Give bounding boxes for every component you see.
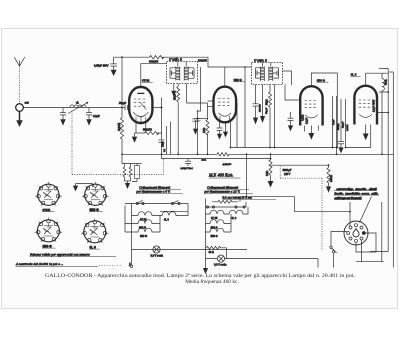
label S2: [89, 208, 103, 212]
pin SP5: [347, 232, 350, 235]
wire IF1 sec to V2 grid: [187, 103, 208, 119]
lamp LP1: [153, 246, 160, 253]
wire V3 cathode: [310, 126, 312, 134]
svg-text:per funzionamento a 6 V.: per funzionamento a 6 V.: [136, 190, 171, 194]
svg-text:1ª MED. F.: 1ª MED. F.: [169, 58, 183, 62]
wire S2 shield ground: [76, 184, 93, 188]
svg-text:6B6 G: 6B6 G: [211, 235, 218, 238]
ground (C9): [193, 129, 198, 135]
wire V1 cathode drops: [135, 122, 146, 136]
capacitor C10: [253, 104, 259, 118]
capacitor C7 (osc pad): [195, 119, 201, 121]
wire main bus B+ (y=156.5): [122, 153, 393, 155]
node junctions: [121, 147, 383, 167]
svg-text:500kΩ: 500kΩ: [338, 123, 340, 130]
node SP feed join: [349, 211, 351, 213]
svg-text:Schema valido per apparecchi c: Schema valido per apparecchi con numero: [30, 253, 90, 257]
resistor R8 (volume pot): [327, 165, 330, 186]
wire 6V left rail b: [131, 204, 133, 266]
capacitor T2 trimmer right: [273, 68, 279, 78]
wire AVC riser (x=122): [121, 57, 123, 107]
svg-text:altoparlanti: altoparlanti: [335, 196, 362, 200]
svg-text:M.F.460: M.F.460: [259, 103, 261, 112]
capacitor T1 trimmer right: [188, 68, 194, 79]
capacitor C11 (det bypass): [288, 112, 294, 125]
wire oscillator coil feed: [198, 67, 201, 111]
wire 12V lamp line: [206, 258, 319, 260]
ground (C11): [288, 125, 293, 131]
svg-text:5000 pF: 5000 pF: [283, 169, 292, 172]
IF transformer T1 (1st MED.F): [167, 62, 198, 84]
capacitor C4 (cathode): [159, 98, 165, 159]
svg-text:20kΩ: 20kΩ: [174, 94, 177, 100]
tube V2 (6B8G IF amp): [214, 87, 237, 123]
capacitor C13 (tone, dashed box): [280, 166, 292, 178]
wire AVC column a: [332, 96, 334, 148]
wire AVC column b: [336, 96, 338, 154]
svg-text:6L 6: 6L 6: [164, 219, 169, 222]
wire bus 2 (y=146): [231, 147, 338, 149]
wire IF1 screen feed: [176, 57, 178, 62]
wire V3 plate loop: [311, 73, 337, 148]
wire T2 to V3 grid: [285, 85, 300, 101]
filament F4 (12V row1): [206, 207, 249, 214]
wire T1 secondary down: [186, 84, 188, 104]
svg-text:Mod.: Mod.: [201, 158, 207, 161]
antenna A1: [14, 57, 25, 66]
capacitor T1 trimmer left: [170, 68, 176, 79]
capacitor T2 trimmer left: [255, 68, 260, 78]
switch SW1: [330, 232, 347, 268]
ground (V2 cathode): [223, 132, 228, 138]
svg-text:0,1µF 400V: 0,1µF 400V: [372, 99, 375, 112]
socket SP (speaker plug): [344, 221, 368, 245]
ground (R7): [268, 181, 274, 188]
resistor R10 (48 ohm): [206, 246, 227, 258]
filament F2 (6V row2): [125, 216, 160, 224]
wire top rail (B+): [114, 56, 150, 58]
note line 2 (handwritten): [15, 262, 131, 267]
ground (C10): [253, 118, 258, 125]
resistor R5 (diode load, vertical): [269, 85, 272, 148]
svg-text:6,3 V scala: 6,3 V scala: [214, 264, 227, 267]
capacitor C5 (B+ bypass): [110, 57, 117, 70]
svg-text:1MΩ: 1MΩ: [203, 128, 206, 133]
label filament 6V title: [136, 185, 184, 193]
inductor L1 (tuned, variable): [68, 102, 89, 114]
wire V4 cathode: [365, 125, 367, 134]
socket S4 (bottom view): [81, 218, 109, 243]
svg-text:B.F. avv. batteria 12 V. an: B.F. avv. batteria 12 V. ant.: [223, 197, 253, 200]
svg-text:125 V: 125 V: [284, 173, 291, 176]
ground (R8): [326, 186, 331, 192]
wire V3 pin stubs: [305, 126, 319, 132]
resistor R1 (AVC, vertical): [120, 108, 123, 155]
node IF2 feed: [244, 66, 246, 68]
wire V1 grid exit: [152, 107, 161, 109]
wire V2 plate up: [224, 67, 226, 87]
wire SP diagonal: [360, 197, 372, 223]
label M.F. 460: [208, 173, 241, 178]
svg-text:6B6 G: 6B6 G: [43, 244, 53, 248]
wire filament feed from bus: [246, 154, 248, 196]
inductor T1 primary: [176, 67, 180, 81]
wire rail drop to IF2 feed: [208, 57, 252, 67]
label S3: [42, 244, 56, 248]
ground (antenna return): [16, 111, 23, 127]
wire output right vertical a: [370, 69, 388, 252]
resistor R7 (AF load vertical): [269, 154, 272, 181]
capacitor C1: [60, 108, 66, 120]
ground (T1 left): [171, 91, 176, 97]
svg-text:0,1µF: 0,1µF: [333, 119, 335, 125]
svg-text:6TH8: 6TH8: [142, 79, 150, 83]
svg-text:ant: ant: [25, 101, 29, 105]
socket S3 (bottom view): [35, 217, 63, 242]
note line 1 (handwritten): [30, 253, 116, 257]
svg-text:bob. mobile ecc. alt.: bob. mobile ecc. alt.: [335, 191, 379, 195]
wire 12V terminal line: [206, 202, 247, 207]
pin SP6: [349, 237, 352, 240]
label speaker note row3: [334, 196, 362, 200]
wire IF2 feed branch: [244, 67, 246, 148]
wire output right vertical b: [389, 72, 393, 268]
wire SP right pin loop: [356, 233, 376, 252]
switch 6V a: [136, 200, 144, 204]
wire V4 plate rail: [366, 73, 389, 86]
node osc tie: [197, 110, 199, 112]
wire gang link (dashed): [72, 111, 164, 175]
svg-text:all.: all.: [76, 103, 79, 105]
wire V2 screen to bus2: [230, 121, 232, 147]
pin SP8: [360, 237, 363, 240]
ground (C8): [217, 134, 222, 140]
svg-text:6TH8: 6TH8: [43, 208, 51, 212]
socket SP key: [353, 229, 359, 237]
label det column: [259, 103, 268, 114]
svg-text:25µF: 25µF: [162, 141, 165, 147]
svg-text:A matricola dal 20.801 in poi: A matricola dal 20.801 in poi e ...: [15, 262, 63, 266]
svg-text:300Ω/½: 300Ω/½: [198, 59, 208, 63]
svg-text:50µµF: 50µµF: [119, 102, 127, 105]
potentiometer cluster under bus left: [122, 154, 142, 183]
capacitor C12: [338, 99, 344, 147]
ground (grid leak): [132, 137, 137, 143]
wire oscillator branch: [197, 111, 199, 154]
lamp LP2: [217, 255, 224, 262]
node 6V terminal: [130, 265, 133, 268]
label speaker note row2: [334, 191, 379, 195]
svg-text:6L 6: 6L 6: [90, 245, 97, 249]
capacitor C2: [86, 108, 92, 120]
ground (12V rail): [203, 268, 208, 274]
wire cathode bias tap: [166, 126, 168, 154]
resistor R3 (600 ohm): [150, 56, 209, 59]
node antenna input terminal: [16, 104, 24, 112]
socket S1 (bottom view): [35, 182, 62, 206]
wire T2 left stub: [255, 85, 257, 104]
svg-text:50kΩ/½: 50kΩ/½: [143, 128, 153, 132]
svg-text:Media frequenza 460 kc.: Media frequenza 460 kc.: [185, 278, 239, 285]
label V1 6TH8: [142, 79, 153, 83]
label V3 pins: [301, 114, 308, 124]
tube V1 (6TH8 converter): [129, 87, 152, 123]
resistor R6 (4.5k inline): [217, 153, 229, 156]
resistor R9 (dropping): [212, 197, 240, 204]
wire tone control link (dashed): [280, 178, 322, 250]
wire filament feed to SP: [295, 197, 350, 212]
wire AVC return: [170, 122, 172, 155]
wire V2 cathode arrow: [225, 122, 227, 131]
capacitor C8 (V2 cathode): [217, 122, 223, 134]
resistor R2 (grid leak): [145, 131, 162, 134]
svg-text:6,3 V scala: 6,3 V scala: [151, 255, 164, 258]
inductor T2 secondary: [269, 67, 273, 82]
inductor L2 (output choke): [382, 73, 384, 154]
wire T2 top connections: [262, 63, 270, 67]
svg-text:48 Ω: 48 Ω: [209, 251, 214, 254]
wire 12V left rail: [205, 199, 207, 269]
ground (S2 shield): [73, 186, 78, 192]
wire 6V lamp line: [132, 249, 248, 251]
svg-text:0,5MΩ: 0,5MΩ: [330, 175, 333, 182]
label S1: [42, 208, 55, 212]
svg-text:avvolg. mob. dal: avvolg. mob. dal: [337, 187, 377, 191]
wire V1 plate to IF1: [141, 64, 167, 87]
resistor R11 (V2 grid leak vertical): [206, 119, 209, 155]
node AVC taps: [121, 56, 123, 108]
svg-text:600Ω/½: 600Ω/½: [149, 59, 159, 63]
svg-text:0,1µF: 0,1µF: [93, 114, 100, 118]
svg-text:0,05µF 400V: 0,05µF 400V: [94, 65, 109, 68]
inductor T2 primary: [260, 67, 264, 82]
label S4: [89, 245, 100, 249]
filament F5 (12V row2): [206, 214, 232, 224]
wire coupling column: [345, 99, 347, 148]
pin SP3: [355, 224, 358, 227]
svg-text:6L 6: 6L 6: [351, 73, 357, 77]
svg-text:6B6 G: 6B6 G: [317, 78, 326, 82]
svg-text:2ª MED. F.: 2ª MED. F.: [254, 58, 268, 62]
wire V4 screen: [346, 125, 371, 148]
ground (T2 stub2): [260, 116, 265, 123]
ground (C1): [60, 119, 65, 125]
svg-text:10µµF: 10µµF: [342, 121, 344, 128]
svg-text:50kΩ: 50kΩ: [265, 99, 268, 105]
switch 6V b: [171, 201, 180, 205]
wire 6V top line: [125, 204, 188, 212]
wire 12V top rail: [240, 196, 295, 198]
pin SP2: [360, 226, 363, 229]
IF transformer T2 (2nd MED.F): [252, 63, 283, 85]
ground (V4 cathode): [363, 134, 369, 141]
wire T2 stub 2: [262, 85, 264, 117]
wire T1 top connections: [178, 62, 186, 67]
wire T2 secondary return: [274, 85, 276, 148]
svg-text:0,1µF: 0,1µF: [306, 117, 309, 124]
svg-text:0,5MΩ: 0,5MΩ: [347, 124, 349, 131]
label V3 6B6G: [316, 78, 328, 82]
svg-text:M.F. 460 Kc/s.: M.F. 460 Kc/s.: [208, 173, 233, 178]
svg-text:4,5kΩ: 4,5kΩ: [301, 114, 304, 121]
wire antenna lead (dotted): [19, 67, 21, 104]
pin SP1: [362, 232, 365, 235]
label columns between V3 V4: [333, 119, 349, 131]
ground (C5): [111, 70, 117, 76]
svg-text:4,5kΩ/½: 4,5kΩ/½: [223, 163, 232, 166]
tube V3 (6B6G det/AF): [300, 86, 322, 125]
ground (C12): [338, 147, 343, 153]
tube V4 (6L6 output): [354, 86, 377, 125]
label V4 6L6: [350, 73, 360, 77]
wire T2 top out: [283, 71, 292, 85]
svg-text:50µµF: 50µµF: [266, 107, 268, 114]
wire V2 plate side: [236, 103, 238, 148]
resistor R4 (under T1, vertical): [177, 84, 180, 155]
wire antenna bus y=107.5: [23, 107, 125, 109]
inductor T1 secondary: [184, 67, 188, 81]
wire 6V left rail a: [124, 206, 126, 233]
node output taps: [387, 91, 389, 113]
capacitor C9 (grid block): [193, 119, 208, 129]
svg-text:1MΩ: 1MΩ: [266, 171, 269, 176]
wire SP lower-right pin drop: [356, 202, 384, 262]
svg-text:6B6 G: 6B6 G: [140, 235, 147, 238]
socket S2 (bottom view): [82, 182, 109, 206]
wire pot feed line D: [271, 164, 329, 166]
wire lower bus C: [162, 158, 271, 160]
node V1 cathode join: [161, 107, 163, 109]
label C5 value: [94, 65, 109, 68]
ground (V3 cathode): [309, 133, 315, 140]
filament F3 (6V row3): [125, 224, 160, 233]
svg-text:0,05µF Mod.: 0,05µF Mod.: [181, 167, 194, 170]
wire V1 grid leak line: [135, 132, 145, 134]
wire SP top-left pin riser: [349, 202, 351, 226]
svg-text:6B8 G: 6B8 G: [234, 78, 243, 82]
capacitor C14 (mod): [185, 159, 191, 166]
label 12V terminals: [222, 197, 276, 200]
filament F1 (6V row1): [132, 211, 189, 215]
svg-text:altop.: altop.: [385, 79, 388, 85]
svg-text:6B8 G: 6B8 G: [90, 208, 100, 212]
wire output tap stubs: [377, 92, 388, 113]
label filament 12V title: [204, 185, 254, 193]
pin SP4: [349, 226, 352, 229]
node 12V terminals: [206, 206, 245, 208]
svg-text:per funzionamento a 12 V.: per funzionamento a 12 V.: [204, 190, 241, 194]
wire V2 grid stubs: [208, 101, 215, 107]
wire T1 bottom stub left: [173, 84, 175, 91]
pin SP7: [355, 239, 358, 242]
label speaker note row1: [334, 187, 377, 191]
ground (C2): [86, 119, 91, 125]
label V2 6B8G: [233, 78, 245, 82]
ground (pot): [125, 183, 130, 189]
filament F6 (12V row3): [206, 224, 232, 233]
svg-text:6L 6: 6L 6: [232, 217, 237, 220]
svg-text:1MΩ/½: 1MΩ/½: [117, 122, 121, 131]
wire lamp feed down: [317, 259, 319, 268]
capacitor C3 (series, grid V1): [125, 105, 130, 110]
